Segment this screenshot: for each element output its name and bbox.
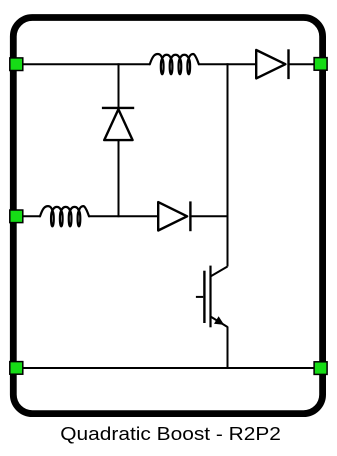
- Q1 collector lead diagonal: [211, 267, 228, 277]
- terminal 5 (bottom-right, green port): [314, 362, 327, 375]
- inductor L2 (input, middle-left): [40, 206, 89, 216]
- inductor L1 (top): [150, 54, 199, 64]
- wire: top rail left segment (terminal 1 to L1): [16, 63, 150, 65]
- Q1 gate bar (left vertical): [203, 271, 205, 323]
- wire: D2 anode down to middle rail: [118, 140, 120, 217]
- diode D2 (vertical, cathode up): [102, 108, 134, 140]
- wire: top rail middle segment (L1 to diode D1): [199, 63, 257, 65]
- svg-text:Quadratic Boost - R2P2: Quadratic Boost - R2P2: [60, 424, 281, 444]
- wire: emitter down to bottom rail: [227, 327, 229, 369]
- Q1 gate lead: [196, 296, 203, 298]
- diode D1 (top right, anode left / cathode right): [256, 49, 288, 79]
- wire: middle rail left segment (terminal 3 to L2): [16, 215, 41, 217]
- terminal 1 (top-left, green port): [10, 58, 23, 71]
- terminal 2 (top-right, green port): [314, 58, 327, 71]
- wire: vertical drop from top rail to diode D2 cathode: [118, 63, 120, 108]
- diode D3 (middle, anode left / cathode right): [158, 201, 190, 231]
- transistor Q1 (IGBT): [196, 266, 228, 328]
- wire: middle rail right segment (D3 to vertical junction): [190, 215, 228, 217]
- wire: middle rail segment (L2 to diode D3): [89, 215, 159, 217]
- Q1 emitter lead diagonal: [211, 317, 228, 328]
- wire: top rail right segment (D1 to terminal 2): [289, 63, 316, 65]
- Q1 channel bar (right vertical): [209, 266, 211, 328]
- wire: long vertical from top rail junction down to middle rail and IGBT collector: [227, 63, 229, 266]
- wire: bottom rail (terminal 4 to terminal 5): [16, 367, 320, 369]
- terminal 3 (middle-left, green port): [10, 210, 23, 223]
- Q1 emitter arrowhead: [215, 317, 223, 324]
- converter cell boundary (rounded outline): [13, 18, 322, 414]
- terminal 4 (bottom-left, green port): [10, 362, 23, 375]
